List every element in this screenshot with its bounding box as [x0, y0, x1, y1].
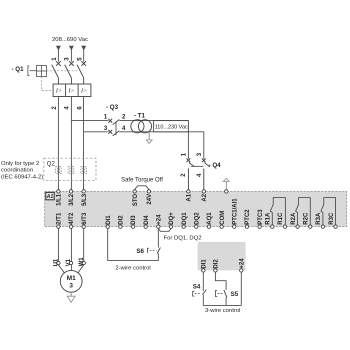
Q1 linkage box [36, 66, 46, 77]
svg-text:DQ2: DQ2 [195, 212, 201, 225]
Q1 manual actuator bracket [28, 66, 37, 76]
svg-text:coordination: coordination [1, 168, 33, 174]
svg-text:Q2: Q2 [47, 161, 56, 167]
svg-text:R3A: R3A [316, 212, 322, 225]
svg-text:W1: W1 [79, 257, 85, 267]
Q2 pole on L3 [81, 167, 87, 174]
svg-text:DI3: DI3 [131, 215, 137, 225]
top terminal labels [57, 193, 208, 206]
svg-text:S6: S6 [136, 248, 144, 255]
svg-text:2-wire control: 2-wire control [115, 266, 150, 272]
svg-text:PTC1/AI1: PTC1/AI1 [233, 198, 239, 225]
svg-text:U1: U1 [54, 258, 60, 266]
transformer T1 windings [131, 120, 152, 133]
svg-text:(IEC 60947-4-2): (IEC 60947-4-2) [1, 175, 43, 181]
svg-text:4/T2: 4/T2 [69, 212, 75, 225]
svg-text:I>: I> [55, 89, 62, 95]
Q1 pole 1 (terminals 1-2) [52, 61, 61, 84]
2-wire control wiring [108, 228, 159, 260]
svg-text:STO: STO [133, 194, 139, 207]
svg-text:2/T1: 2/T1 [57, 212, 63, 225]
svg-text:A1: A1 [46, 194, 54, 200]
svg-text:I>: I> [67, 89, 74, 95]
3-wire block terminal circles [202, 269, 243, 272]
Q3 mechanical link [115, 122, 117, 135]
svg-text:S4: S4 [193, 283, 201, 290]
Q4 mechanical link [191, 165, 204, 167]
up arrow terminal (external link) [223, 178, 229, 189]
Q1 overcurrent trip boxes I> [53, 84, 91, 97]
motor M1 [60, 270, 82, 292]
jumper +24 to DQ+ [158, 229, 171, 232]
Q1 pole 3 (terminals 5-6) [77, 61, 86, 84]
pushbutton S4 [193, 290, 207, 297]
svg-text:3: 3 [69, 282, 73, 289]
switch S6 [147, 248, 160, 254]
tap wire from L2 to Q3 pole 1 [71, 120, 108, 122]
bottom terminal circles (power) [57, 225, 86, 228]
Q4 pole 1 (X contact and blade) [187, 158, 195, 189]
svg-text:For DQ1, DQ2: For DQ1, DQ2 [164, 236, 202, 242]
svg-text:+24: +24 [240, 258, 246, 269]
A1 block label box [46, 192, 55, 200]
motor wire V1 [70, 228, 72, 270]
wire Q3 pole1 to T1 / control box (upper) [119, 120, 188, 122]
3-wire control wiring [203, 272, 241, 305]
motor wire W1 [78, 228, 84, 272]
supply line L3 arrow [81, 46, 86, 62]
Q3 pole 1 (X contact and blade) [108, 119, 119, 125]
optional contactor Q2 dashed box [44, 158, 96, 180]
svg-text:110...230 Vac: 110...230 Vac [155, 125, 188, 131]
svg-text:AQ1: AQ1 [207, 212, 213, 225]
svg-text:A2: A2 [202, 193, 208, 201]
svg-text:208...690 Vac: 208...690 Vac [52, 37, 88, 43]
pushbutton S5 [216, 290, 227, 297]
motor terminal circles [57, 261, 86, 264]
svg-text:V1: V1 [66, 258, 72, 266]
control voltage label box 110...230 Vac [154, 121, 189, 132]
svg-text:DI1: DI1 [106, 215, 112, 225]
Q2 pole on L2 [68, 167, 74, 174]
wire L2 from Q1 to drive terminal 3/L2 [70, 97, 72, 190]
svg-text:R3C: R3C [329, 212, 335, 225]
svg-text:S5: S5 [231, 291, 239, 298]
svg-text:- T1: - T1 [134, 112, 146, 119]
supply line L1 arrow [56, 46, 61, 62]
svg-text:6/T3: 6/T3 [82, 212, 88, 225]
Q1 pole 2 (terminals 3-4) [65, 61, 74, 84]
drive block A1 (gray terminal bar) [45, 191, 347, 226]
svg-text:1/L1: 1/L1 [57, 193, 63, 206]
motor earth arrow [67, 292, 75, 302]
supply line L2 arrow [69, 46, 74, 62]
svg-text:+24: +24 [157, 214, 163, 225]
T1 earth arrow [146, 132, 152, 144]
svg-text:3/L2: 3/L2 [69, 193, 75, 206]
svg-text:- Q3: - Q3 [106, 104, 119, 111]
wire L3 from Q1 to drive terminal 5/L3 [83, 97, 85, 190]
svg-text:5/L3: 5/L3 [82, 193, 88, 206]
svg-text:DI2: DI2 [119, 215, 125, 225]
svg-text:DI4: DI4 [144, 215, 150, 225]
wire to Q4 pole 1 (A1 branch) [187, 132, 189, 159]
svg-text:Safe Torque Off: Safe Torque Off [121, 177, 163, 183]
svg-text:PTC3: PTC3 [258, 209, 264, 225]
wire Q3 pole2 to corner (lower) [119, 131, 204, 133]
svg-text:- Q1: - Q1 [12, 66, 25, 73]
svg-text:DQ1: DQ1 [182, 212, 188, 225]
svg-text:R2A: R2A [291, 212, 297, 225]
top terminal circles [57, 190, 228, 193]
wire to Q4 pole 2 (A2 branch) [203, 132, 205, 159]
STO-24V jumper [135, 186, 149, 190]
svg-text:A1: A1 [187, 193, 193, 201]
relay R1 contact [270, 198, 285, 225]
tap wire from L3 to Q3 pole 2 [84, 131, 109, 133]
Q2 pole on L1 [56, 167, 62, 174]
Q3 pole 2 (X contact and blade) [108, 130, 119, 136]
svg-text:M1: M1 [67, 275, 76, 282]
svg-text:R1A: R1A [266, 212, 272, 225]
svg-text:DI2: DI2 [214, 259, 220, 269]
bottom terminal circles (control) [106, 225, 337, 228]
svg-text:DI1: DI1 [202, 259, 208, 269]
svg-text:R1C: R1C [278, 212, 284, 225]
svg-text:3-wire control: 3-wire control [205, 308, 240, 314]
wire L1 from Q1 to drive terminal 1/L1 [57, 97, 59, 190]
svg-text:24V: 24V [147, 194, 153, 205]
Q1 dashed linkage lines [42, 71, 78, 91]
motor wire U1 [58, 228, 64, 272]
svg-text:COM: COM [220, 211, 226, 225]
svg-text:I>: I> [80, 89, 87, 95]
relay R3 contact [321, 198, 336, 225]
svg-text:PTC2: PTC2 [245, 209, 251, 225]
svg-text:- Q4: - Q4 [209, 162, 222, 169]
3-wire control terminal block (gray) [198, 242, 246, 271]
svg-text:Only for type 2: Only for type 2 [1, 161, 39, 167]
relay R2 contact [296, 198, 311, 225]
motor terminal labels U1,V1,W1 [54, 257, 85, 267]
svg-text:DQ+: DQ+ [169, 212, 175, 225]
Q4 pole 2 (X contact and blade) [202, 159, 210, 190]
bottom terminal labels [57, 198, 335, 225]
svg-text:R2C: R2C [304, 212, 310, 225]
